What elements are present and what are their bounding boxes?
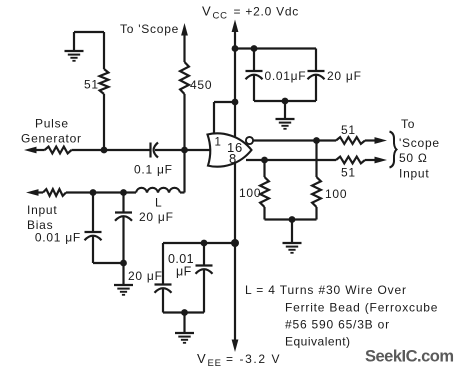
svg-text:20 μF: 20 μF — [327, 69, 362, 83]
svg-text:Equivalent): Equivalent) — [285, 335, 351, 349]
svg-text:V: V — [197, 351, 206, 366]
svg-text:Ferrite Bead (Ferroxcube: Ferrite Bead (Ferroxcube — [285, 301, 438, 315]
svg-text:#56 590 65/3B or: #56 590 65/3B or — [285, 318, 390, 332]
svg-text:100: 100 — [325, 187, 347, 201]
svg-text:To: To — [401, 117, 415, 131]
svg-text:8: 8 — [229, 151, 237, 166]
svg-text:0.1 μF: 0.1 μF — [134, 163, 173, 177]
svg-text:450: 450 — [190, 78, 212, 92]
svg-text:0.01μF: 0.01μF — [265, 69, 307, 83]
svg-text:1: 1 — [215, 137, 222, 149]
svg-text:Input: Input — [399, 167, 429, 181]
svg-text:L = 4 Turns #30 Wire Over: L = 4 Turns #30 Wire Over — [245, 283, 407, 297]
svg-text:Input: Input — [27, 203, 57, 217]
svg-text:20 μF: 20 μF — [128, 269, 163, 283]
svg-text:Generator: Generator — [21, 132, 82, 146]
svg-text:51: 51 — [341, 123, 356, 137]
svg-text:= +2.0 Vdc: = +2.0 Vdc — [234, 5, 300, 19]
svg-text:51: 51 — [341, 166, 356, 180]
svg-text:50 Ω: 50 Ω — [399, 151, 428, 165]
svg-text:'Scope: 'Scope — [399, 136, 440, 150]
svg-text:μF: μF — [176, 265, 192, 279]
svg-text:V: V — [202, 4, 211, 19]
svg-text:SeekIC.com: SeekIC.com — [365, 348, 454, 366]
svg-text:20 μF: 20 μF — [139, 210, 174, 224]
svg-text:51: 51 — [84, 78, 99, 92]
svg-text:= -3.2 V: = -3.2 V — [226, 352, 281, 366]
svg-text:L: L — [155, 196, 162, 210]
svg-text:100: 100 — [239, 186, 261, 200]
svg-text:0.01 μF: 0.01 μF — [35, 231, 81, 245]
svg-text:Pulse: Pulse — [35, 117, 69, 131]
svg-text:EE: EE — [208, 358, 222, 369]
svg-text:To 'Scope: To 'Scope — [120, 22, 179, 36]
svg-text:CC: CC — [213, 11, 228, 22]
